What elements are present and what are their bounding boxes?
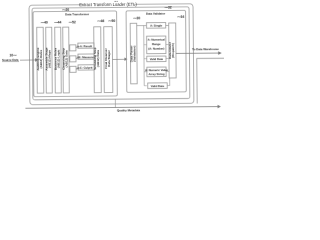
check box S3 (147, 56, 166, 62)
quality square Q2 (70, 56, 76, 62)
svg-text:(Validation): (Validation) (132, 46, 136, 62)
svg-text:Data Transformer: Data Transformer (65, 12, 90, 16)
warehouse box (clipped at right edge) (197, 58, 225, 103)
svg-text:⁓46: ⁓46 (97, 19, 104, 23)
wire Q2-F2 (76, 57, 79, 59)
outer system box (29, 4, 194, 105)
check box S5 (148, 83, 168, 89)
svg-text:⁓52: ⁓52 (69, 20, 76, 24)
svg-text:⁓50: ⁓50 (108, 19, 115, 23)
svg-text:Source Data: Source Data (2, 58, 19, 62)
svg-text:⁓20: ⁓20 (62, 8, 69, 12)
svg-text:To Data Warehouse: To Data Warehouse (192, 47, 219, 51)
svg-text:A: Result: A: Result (80, 44, 92, 48)
title ETL (79, 1, 137, 7)
svg-text:C: Culprit: C: Culprit (80, 66, 93, 70)
stage box T2 (44, 27, 52, 93)
quality metadata connector (114, 99, 116, 107)
svg-text:Quality Metadata: Quality Metadata (117, 108, 141, 112)
svg-text:Valid Date: Valid Date (150, 57, 164, 61)
bus wire left comb (137, 25, 147, 85)
wire Q3-F3 (76, 67, 79, 69)
svg-text:⁓44: ⁓44 (54, 20, 61, 24)
quality square Q3 (70, 66, 76, 72)
svg-text:⁓40: ⁓40 (41, 21, 48, 25)
arrow transformer to validator (112, 58, 126, 60)
check box S4 (145, 67, 169, 77)
wire Q1-F1 (76, 46, 79, 48)
svg-text:⁓34: ⁓34 (177, 15, 184, 19)
router box V2 (168, 23, 176, 78)
arrow to data warehouse (176, 52, 221, 55)
svg-text:Array String: Array String (148, 72, 164, 76)
svg-text:Data Validator: Data Validator (146, 12, 166, 16)
svg-text:Valid Date: Valid Date (151, 84, 165, 88)
svg-text:(AB12) Maps: (AB12) Maps (47, 50, 51, 69)
svg-text:(AB12) Rules: (AB12) Rules (39, 49, 43, 68)
svg-text:(AB12) Logic: (AB12) Logic (56, 49, 60, 68)
svg-text:Data Stager: Data Stager (107, 49, 111, 67)
quality metadata line (25, 105, 220, 109)
check box S1 (146, 23, 165, 29)
svg-text:(A: Number): (A: Number) (148, 46, 164, 50)
svg-text:(AB12) Data: (AB12) Data (96, 50, 100, 67)
wires checks to router (166, 25, 170, 85)
result box F1 (78, 43, 94, 48)
measure box F2 (78, 54, 94, 59)
svg-text:⁓32: ⁓32 (165, 5, 172, 9)
data validator box (126, 10, 186, 92)
culprit box F3 (78, 65, 94, 70)
stage box T5 (93, 27, 101, 93)
stage box T4 (61, 27, 69, 93)
check box S2 (147, 36, 166, 54)
svg-text:B: Measure: B: Measure (79, 55, 95, 59)
svg-text:(AB12) Data: (AB12) Data (64, 50, 68, 67)
quality square Q1 (70, 45, 76, 51)
data transformer box (33, 11, 117, 97)
svg-text:Extract Transform Loader (ETL): Extract Transform Loader (ETL) (79, 2, 137, 8)
source data text (2, 58, 19, 62)
arrow source data (20, 59, 38, 62)
svg-text:A: Single: A: Single (150, 24, 163, 28)
stage box T6 (104, 27, 113, 93)
svg-text:(Dispatch): (Dispatch) (171, 43, 175, 58)
stage box T3 (53, 27, 61, 93)
svg-text:⁓30: ⁓30 (133, 16, 140, 20)
stage box T1 (36, 27, 44, 93)
parser box V1 (129, 23, 137, 84)
inner ETL box (32, 7, 190, 100)
